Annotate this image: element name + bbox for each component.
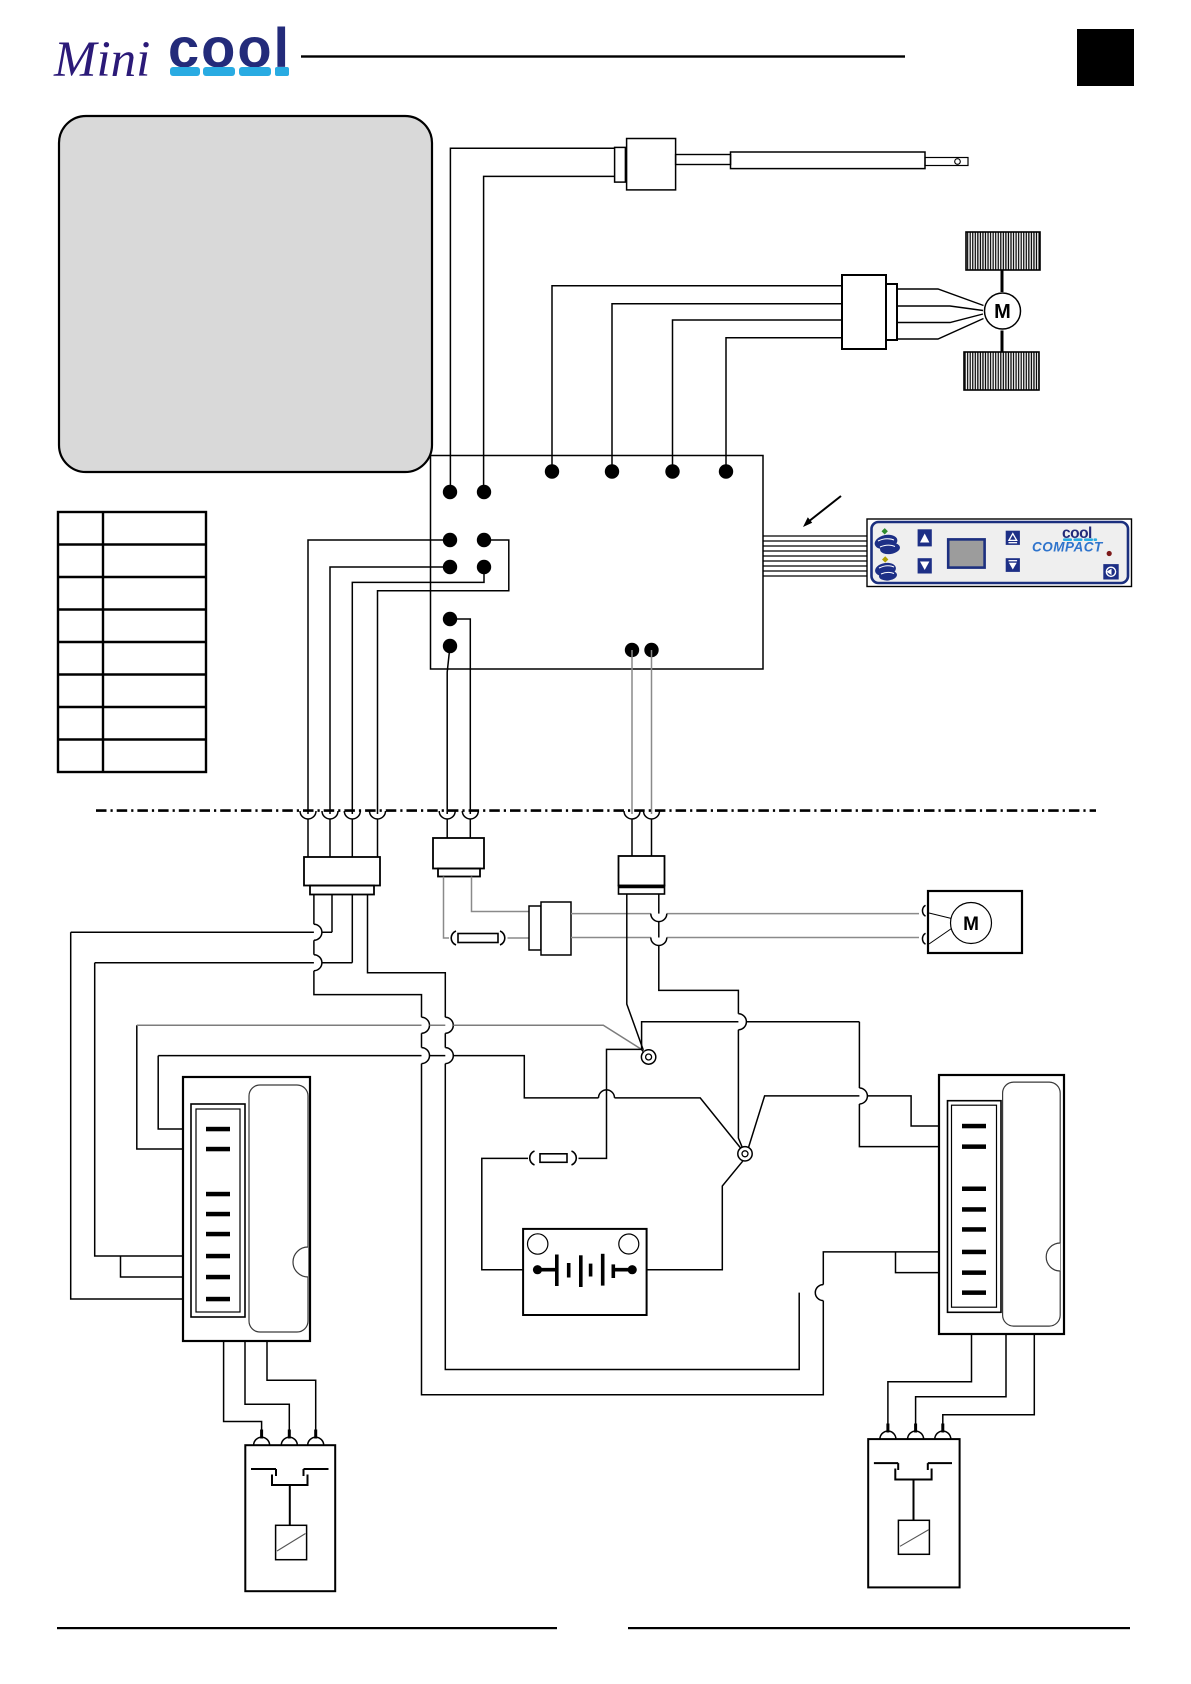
panel display <box>948 539 984 567</box>
bullet socket 7 at separator <box>624 811 640 819</box>
panel button temp up <box>1006 531 1020 545</box>
ground eyelet 2 <box>738 1147 752 1161</box>
left fusebox connector strip <box>191 1104 245 1317</box>
blower wheel upper <box>966 232 1040 270</box>
battery symbol <box>539 1254 630 1287</box>
valve left bullets <box>254 1437 324 1445</box>
wire left fusebox pin2 to eyelet 1 <box>137 1025 206 1149</box>
panel led green <box>882 528 888 534</box>
right fusebox pins <box>962 1124 986 1295</box>
left fuse-relay box <box>183 1077 310 1341</box>
ground eyelet 1 <box>641 1050 655 1064</box>
condenser motor M2 <box>951 903 992 944</box>
valve right bullets <box>880 1431 951 1439</box>
wire blower 2 to control box <box>612 304 842 465</box>
wire ECU aux2 down <box>447 646 450 814</box>
wire w1 connector pin1 to right fusebox pins 6+7 <box>314 895 962 1395</box>
wire w4 connector pin4 to right fusebox pin8 <box>368 895 800 1370</box>
wires connector to blower motor <box>897 289 984 339</box>
bullet socket 8 at separator <box>644 811 660 819</box>
right fusebox connector strip <box>948 1101 1002 1313</box>
air temperature probe B1 <box>615 139 968 190</box>
wire right fusebox out1 to heater relay <box>888 1334 972 1424</box>
svg-text:M: M <box>994 301 1011 323</box>
bullet socket 5 at separator <box>439 811 455 819</box>
control panel cool COMPACT <box>867 519 1132 587</box>
probe capillary curl <box>955 159 961 165</box>
wire ECU power pair down <box>631 650 633 814</box>
footer rule right <box>628 1627 1130 1629</box>
wire ECU out2 down to connector <box>330 567 450 814</box>
wire ECU out1 down to connector <box>308 540 450 814</box>
middle harness connector X3 (2 way) <box>433 819 484 877</box>
panel led red <box>1107 551 1112 556</box>
right fusebox cover <box>1003 1082 1061 1326</box>
valve right wire tips <box>888 1424 943 1433</box>
condenser motor bullet 2 <box>922 933 925 944</box>
logo cool cyan underline bars <box>170 67 289 76</box>
battery terminals <box>533 1265 542 1274</box>
panel button down <box>918 558 932 573</box>
ECU bottom terminals pair <box>625 643 639 657</box>
wire eyelet 1 to right fusebox pin2 <box>642 1022 962 1147</box>
wire branch left fusebox pin7 <box>121 1256 207 1277</box>
panel button mode <box>1103 564 1118 579</box>
right fuse-relay box <box>939 1075 1064 1334</box>
solenoid valve unit right <box>868 1439 959 1587</box>
wire blower 1 to control box <box>552 286 842 465</box>
wire w1 branch to right fusebox pin7 <box>896 1252 963 1273</box>
roof harness connector X5 (2 way) <box>619 819 665 894</box>
left fusebox cover <box>249 1085 308 1332</box>
legend table <box>58 512 206 772</box>
ribbon cable ECU to panel <box>763 536 867 576</box>
battery box <box>523 1229 647 1315</box>
wire X5 pin1 to ground eyelet 1 <box>627 894 644 1051</box>
header black square <box>1077 29 1134 86</box>
blower connector X1 <box>842 275 886 349</box>
wire left fusebox pin1 to eyelet 2 <box>158 1056 206 1129</box>
wire plug to condenser motor feed 2 <box>571 937 919 939</box>
ECU lower terminals <box>443 612 457 626</box>
wire blower 4 to control box <box>726 338 842 465</box>
wire left fusebox out1 to vent relay <box>224 1341 262 1430</box>
grey note box <box>59 116 432 472</box>
blower motor M1 <box>985 293 1021 329</box>
wire eyelet 1 to battery minus via fuse F2 <box>579 1049 644 1158</box>
wire ECU aux1 down <box>450 619 470 814</box>
blower wheel lower <box>964 352 1039 390</box>
wire right fusebox out3 to heater relay <box>943 1334 1035 1424</box>
wire right fusebox out2 to heater relay <box>916 1334 1006 1424</box>
fuse F1 <box>451 931 505 945</box>
svg-text:COMPACT: COMPACT <box>1032 540 1104 555</box>
fuse F2 <box>530 1151 577 1165</box>
valve left contact symbol <box>251 1469 329 1560</box>
ECU output terminals quad <box>443 533 457 547</box>
header rule <box>301 55 905 57</box>
wire ECU out3 down to connector <box>352 567 484 814</box>
wire w2 connector pin2 to left fusebox pin8 <box>331 895 333 933</box>
svg-text:Mini: Mini <box>53 32 150 88</box>
condenser plug X4 <box>529 906 541 950</box>
battery pole circles <box>528 1234 548 1254</box>
valve right contact symbol <box>874 1463 952 1554</box>
bullet socket 1 at separator <box>300 811 316 819</box>
blower connector X1 tab <box>886 284 897 340</box>
wire ECU out4 down to connector <box>378 540 509 814</box>
wire blower 3 to control box <box>673 320 843 465</box>
wire X3 pin2 to condenser plug <box>472 877 530 912</box>
panel button up <box>918 529 932 546</box>
bullet socket 3 at separator <box>344 811 360 819</box>
cab harness connector X2 (4 way) <box>304 819 380 895</box>
separator roof/cab dash-dot line <box>96 809 1096 812</box>
panel button temp down <box>1006 558 1020 572</box>
panel icon vent upper <box>873 533 900 556</box>
condenser motor M2 box <box>928 891 1022 953</box>
bullet socket 2 at separator <box>322 811 338 819</box>
wire X3 pin1 to fuse F1 <box>444 877 450 939</box>
wire fuse F1 to condenser plug <box>508 937 530 939</box>
wire X5 pin2 to ground eyelet 2 <box>651 894 747 1148</box>
svg-text:M: M <box>963 914 979 935</box>
solenoid valve unit left <box>245 1445 335 1591</box>
pointer arrow to ribbon <box>808 496 841 522</box>
footer rule left <box>57 1627 557 1629</box>
bullet socket 6 at separator <box>462 811 478 819</box>
ECU terminals top row <box>545 464 559 478</box>
panel led yellow <box>882 556 888 562</box>
wire hop over eyelet1 branch <box>599 1090 615 1098</box>
wire plug to condenser motor feed 1 <box>571 913 919 915</box>
wire left fusebox out2 to vent relay <box>245 1341 289 1430</box>
wire probe pin1 to control box <box>450 148 614 488</box>
wire w3 connector pin3 to left fusebox pin6 <box>351 895 353 963</box>
ECU probe terminals <box>443 485 457 499</box>
wire eyelet 2 to battery plus <box>638 1161 743 1270</box>
condenser motor bullet 1 <box>922 905 925 916</box>
panel icon vent lower <box>874 561 897 581</box>
wire left fusebox out3 to vent relay <box>267 1341 316 1430</box>
blower motor shaft <box>1001 270 1004 292</box>
wire eyelet 2 to right fusebox pin1 <box>749 1096 963 1148</box>
left fusebox pins <box>206 1127 230 1302</box>
valve left wire tips <box>262 1430 316 1439</box>
electronic control unit box <box>431 456 764 670</box>
wire probe pin2 to control box <box>484 176 615 488</box>
bullet socket 4 at separator <box>370 811 386 819</box>
